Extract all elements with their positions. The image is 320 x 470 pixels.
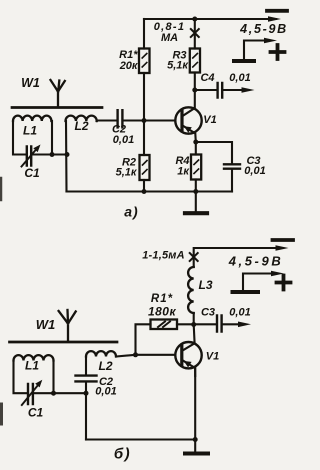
battery plus hook wire (bottom) xyxy=(243,274,276,291)
wire R1 bottom lead to base node (top) xyxy=(143,73,145,121)
wire R1 left lead down to base (bottom) xyxy=(136,324,151,355)
svg-text:5,1к: 5,1к xyxy=(116,167,138,179)
svg-text:4,5-9В: 4,5-9В xyxy=(228,254,284,269)
ferrite core line (bottom magnetic antenna) xyxy=(10,341,118,344)
node collector junction (top) xyxy=(192,88,197,93)
node rail-ground junction (top) xyxy=(193,189,198,194)
svg-text:б): б) xyxy=(114,446,131,463)
wire R2 bottom lead to rail (top) xyxy=(143,180,145,192)
svg-text:5,1к: 5,1к xyxy=(167,59,189,71)
wire collector node to C3 (bottom) xyxy=(194,323,217,325)
arrow of variable C1 (bottom) xyxy=(22,380,43,405)
svg-text:L3: L3 xyxy=(198,278,212,292)
svg-text:W1: W1 xyxy=(36,317,56,332)
scan smudge left edge 1 xyxy=(0,178,2,200)
battery plus hook wire (top) xyxy=(244,41,269,60)
wire R4 bottom lead (top) xyxy=(195,180,197,192)
svg-text:4,5-9В: 4,5-9В xyxy=(239,22,288,36)
minus terminal bar (bottom) xyxy=(273,238,294,242)
svg-text:С4: С4 xyxy=(200,72,214,84)
node collector junction (bottom) xyxy=(191,322,196,327)
svg-text:а): а) xyxy=(124,204,138,220)
capacitor C1 variable (top) xyxy=(27,147,31,166)
arrowhead to minus supply (top) xyxy=(268,16,281,22)
wire tank to C2 branch (bottom) xyxy=(54,392,87,394)
arrowhead to plus supply (bottom) xyxy=(271,271,284,277)
inductor L1 (bottom) xyxy=(14,355,54,360)
svg-text:C1: C1 xyxy=(28,406,44,420)
wire L2 left leg to C2 (bottom) xyxy=(85,357,87,376)
resistor R1 (bottom) xyxy=(151,320,178,330)
wire tank left side (top) xyxy=(13,121,27,155)
wire top rail (bottom) xyxy=(194,248,283,267)
arrowhead to plus supply (top) xyxy=(264,38,277,44)
arrowhead output (bottom) xyxy=(238,322,251,328)
node tank-bottom junction (top) xyxy=(50,152,55,157)
capacitor C1 variable (bottom) xyxy=(28,384,33,404)
svg-text:V1: V1 xyxy=(206,351,219,363)
arrowhead output (top) xyxy=(242,87,255,93)
resistor R3 (top) xyxy=(190,49,200,73)
wire emitter down to rail (bottom) xyxy=(194,368,196,440)
node base junction (bottom) xyxy=(133,352,138,357)
inductor L2 (top) xyxy=(66,116,97,121)
node R2-rail junction (top) xyxy=(142,189,147,194)
ferrite core line (top magnetic antenna) xyxy=(12,106,102,109)
svg-text:C1: C1 xyxy=(24,166,40,180)
svg-text:0,01: 0,01 xyxy=(244,165,265,177)
wire R4 top lead (top) xyxy=(195,142,197,155)
wire tank right side (bottom) xyxy=(52,361,54,394)
current break cross (bottom) xyxy=(190,253,198,261)
svg-text:1к: 1к xyxy=(177,166,190,178)
svg-text:L1: L1 xyxy=(23,124,37,138)
capacitor C2 (top) xyxy=(118,110,123,127)
capacitor C4 (top) xyxy=(218,83,223,98)
node base junction (top) xyxy=(142,118,147,123)
svg-text:0,01: 0,01 xyxy=(113,134,134,146)
wire R1 top lead from rail (top) xyxy=(143,19,145,49)
wire L2 to C2 (top) xyxy=(97,119,117,122)
ground symbol (bottom) xyxy=(185,440,208,454)
wire tank right side (top) xyxy=(51,121,53,155)
antenna W1 (bottom) xyxy=(59,310,76,342)
wire tank bottom (bottom) xyxy=(33,392,53,394)
capacitor C2 (bottom) xyxy=(76,376,97,382)
svg-text:20к: 20к xyxy=(119,60,139,72)
svg-text:180к: 180к xyxy=(148,305,177,319)
svg-text:W1: W1 xyxy=(21,76,40,90)
wire top rail (top) xyxy=(144,18,276,20)
wire C3 bottom to rail (top) xyxy=(231,169,233,192)
node emitter junction (top) xyxy=(193,140,198,145)
svg-text:0,01: 0,01 xyxy=(229,72,250,84)
current break cross (top) xyxy=(191,29,199,37)
minus terminal bar (top) xyxy=(267,9,287,13)
wire L2 to base node (bottom) xyxy=(116,355,175,357)
wire R3 to collector node (top) xyxy=(194,73,196,91)
node emitter-rail junction (bottom) xyxy=(193,437,198,442)
ground symbol (top) xyxy=(185,192,207,214)
wire bottom rail (top) xyxy=(67,190,233,192)
wire R1 right lead (bottom) xyxy=(177,323,194,325)
battery common bar (top) xyxy=(234,59,254,63)
svg-text:L1: L1 xyxy=(25,359,39,373)
svg-text:R1*: R1* xyxy=(151,293,173,305)
wire L3 to collector node (bottom) xyxy=(193,313,195,325)
node L2 bottom junction (top) xyxy=(65,152,70,157)
node C2 junction (bottom) xyxy=(84,391,89,396)
wire C2 bottom lead (bottom) xyxy=(85,382,87,393)
svg-text:0,01: 0,01 xyxy=(229,307,250,319)
svg-text:С3: С3 xyxy=(201,307,215,319)
wire C2 to base node (top) xyxy=(123,119,144,121)
wire tank bottom (top) xyxy=(32,153,53,155)
scan smudge left edge 2 xyxy=(0,404,3,424)
wire R2 top lead (top) xyxy=(143,121,145,156)
transistor V1 (bottom) xyxy=(175,325,201,377)
wire C3 to output arrow (bottom) xyxy=(222,323,243,325)
battery common bar (bottom) xyxy=(233,290,259,294)
wire collector node to C4 (top) xyxy=(195,89,217,91)
wire C2 node down to rail (bottom) xyxy=(85,393,87,439)
node rail-R3 junction (top) xyxy=(192,17,197,22)
wire bottom rail (bottom) xyxy=(86,438,195,440)
svg-text:V1: V1 xyxy=(203,114,216,126)
capacitor C3 (bottom) xyxy=(217,316,222,332)
plus sign (bottom) xyxy=(277,276,291,290)
wire C4 to output arrow (top) xyxy=(223,89,246,91)
wire tank to L2 bottom (top) xyxy=(52,153,67,155)
inductor L3 (bottom) xyxy=(188,267,194,313)
resistor R1 (top) xyxy=(139,49,150,74)
wire tank left side (bottom) xyxy=(14,361,28,394)
resistor R4 (top) xyxy=(191,155,201,180)
svg-text:L2: L2 xyxy=(98,359,112,373)
plus sign (top) xyxy=(271,45,285,59)
capacitor C3 (top) xyxy=(224,164,240,168)
wire L2 left leg down to rail (top) xyxy=(65,121,68,192)
resistor R2 (top) xyxy=(140,155,150,180)
svg-text:1-1,5мА: 1-1,5мА xyxy=(142,250,185,262)
svg-text:МА: МА xyxy=(161,32,178,44)
arrowhead to minus supply (bottom) xyxy=(276,245,289,251)
svg-text:0,01: 0,01 xyxy=(95,386,116,398)
wire emitter node to C3 branch (top) xyxy=(196,142,232,164)
transistor V1 (top) xyxy=(144,90,202,142)
antenna W1 (top) xyxy=(51,80,65,107)
node tank-bottom junction (bottom) xyxy=(51,391,56,396)
wire rail to R3 (top) xyxy=(194,19,196,49)
inductor L1 (top) xyxy=(13,116,51,121)
inductor L2 (bottom) xyxy=(86,351,116,356)
arrow of variable C1 (top) xyxy=(22,145,41,167)
svg-text:L2: L2 xyxy=(74,119,88,133)
